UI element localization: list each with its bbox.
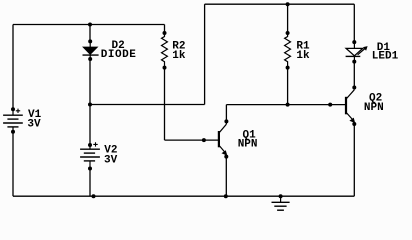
- node R1 bottom rail junction: [286, 103, 290, 107]
- wire D1 anode drop: [353, 4, 355, 42]
- wire D2 anode drop: [89, 25, 91, 42]
- diode D2: [83, 41, 99, 59]
- node V2 plus pin: [88, 143, 92, 147]
- svg-text:NPN: NPN: [364, 102, 384, 114]
- wire D1 cathode to Q2 collector: [353, 62, 355, 88]
- node R2 bottom pin: [163, 66, 167, 70]
- node Q1 emitter pin: [224, 155, 228, 159]
- wire D2 cathode to V2+: [89, 59, 91, 145]
- node Q2 emitter pin: [352, 122, 356, 126]
- wire R2 top drop: [164, 25, 166, 34]
- node D2 cathode pin: [88, 57, 92, 61]
- svg-text:3V: 3V: [104, 155, 118, 167]
- svg-text:3V: 3V: [27, 118, 41, 130]
- resistor R2: [162, 33, 168, 68]
- node R1 top rail junction: [286, 2, 290, 6]
- node V2 bottom rail junction: [92, 194, 96, 198]
- svg-text:1k: 1k: [172, 50, 186, 62]
- wire Q1 base lead: [165, 139, 219, 141]
- wire Q2 emitter down to bottom rail: [353, 124, 355, 196]
- wire top-left horizontal V1+ to R2 top: [13, 24, 165, 26]
- node Q1 emitter rail junction: [224, 194, 228, 198]
- node V1 minus pin: [11, 130, 15, 134]
- wire mid horizontal D2 node to riser: [90, 104, 205, 106]
- svg-text:DIODE: DIODE: [101, 49, 137, 61]
- transistor Q2: [346, 88, 355, 124]
- battery V2: [80, 142, 100, 168]
- node Q1 base wire junction: [202, 138, 206, 142]
- wire Q1 collector riser: [225, 105, 227, 122]
- node D2 anode pin: [88, 39, 92, 43]
- ground: [272, 196, 290, 210]
- wire R1 top drop: [287, 4, 289, 33]
- svg-text:1k: 1k: [296, 50, 310, 62]
- wire top-right horizontal rail: [205, 3, 355, 5]
- node D1 anode pin: [352, 40, 356, 44]
- node mid wire junction: [88, 103, 92, 107]
- svg-text:NPN: NPN: [238, 139, 258, 151]
- node Q2 collector pin: [352, 86, 356, 90]
- node Q1 collector pin: [224, 119, 228, 123]
- wire V2 minus to bottom rail: [89, 169, 91, 197]
- svg-text:LED1: LED1: [372, 50, 399, 62]
- node R1 bottom pin: [286, 66, 290, 70]
- wire mid riser x=204.6: [204, 4, 206, 104]
- wire bottom rail: [13, 195, 354, 197]
- wire left vertical below V1: [12, 132, 14, 197]
- wire collector rail to Q2 base: [226, 104, 345, 106]
- node Q2 base wire junction: [328, 103, 332, 107]
- wire left vertical V1+ riser: [12, 25, 14, 110]
- node V1+ / D2 branch: [88, 23, 92, 27]
- battery V1: [3, 109, 23, 132]
- transistor Q1: [219, 121, 227, 155]
- node V1 plus pin: [11, 107, 15, 111]
- wire R2 bottom to Q1 base corner: [164, 68, 166, 141]
- node R2 top pin: [163, 31, 167, 35]
- resistor R1: [285, 33, 291, 68]
- node R1 top pin: [286, 31, 290, 35]
- wire Q1 emitter down to bottom rail: [225, 157, 227, 197]
- LED D1: [346, 42, 368, 62]
- node V2 minus pin: [88, 167, 92, 171]
- node D1 cathode pin: [352, 60, 356, 64]
- wire R1 bottom drop: [287, 68, 289, 105]
- node ground junction: [279, 194, 283, 198]
